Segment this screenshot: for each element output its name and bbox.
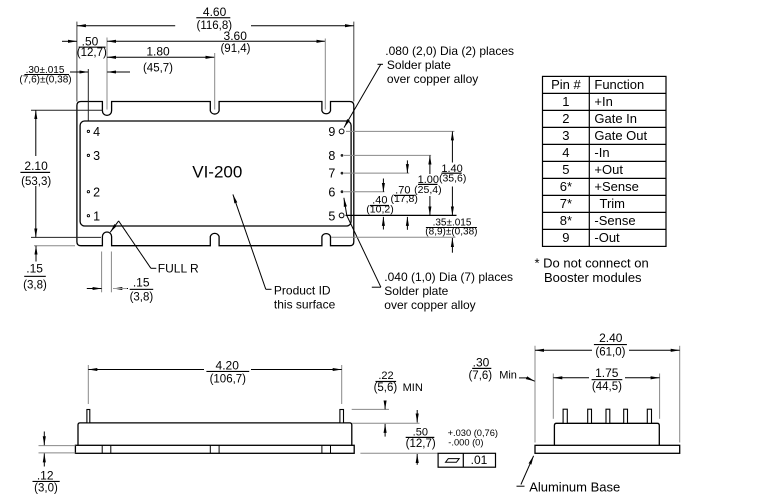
svg-text:1: 1 <box>93 209 100 223</box>
svg-text:+In: +In <box>594 94 612 109</box>
dimension .50 (12,7) +.030/-.000 <box>360 452 438 454</box>
end view pins <box>563 409 651 423</box>
module flange outline with mounting slots <box>77 102 354 246</box>
.040 dia note + leader <box>372 286 381 288</box>
svg-text:(25,4): (25,4) <box>414 184 441 196</box>
svg-text:(44,5): (44,5) <box>592 381 622 393</box>
svg-text:4.20: 4.20 <box>216 358 240 372</box>
svg-text:7: 7 <box>328 167 335 181</box>
svg-text:+.030 (0,76): +.030 (0,76) <box>448 428 498 438</box>
svg-text:* Do not connect on: * Do not connect on <box>535 256 649 271</box>
extension line module left edge up <box>76 22 78 102</box>
aluminum baseplate <box>535 445 680 453</box>
dimension 1.40 (35,6) <box>451 131 453 215</box>
pin 9 row extension line <box>346 130 454 132</box>
svg-text:this surface: this surface <box>274 298 336 312</box>
svg-text:.15: .15 <box>26 262 43 276</box>
dimension .15 (3,8) left <box>34 245 75 247</box>
dimension .70 (17,8) <box>406 160 408 229</box>
pin 6 row extension line <box>344 191 385 193</box>
svg-text:6: 6 <box>328 185 335 199</box>
svg-text:(45,7): (45,7) <box>143 62 173 74</box>
dimension .22 (5,6) MIN <box>352 408 389 410</box>
pin 7 <box>341 172 344 175</box>
svg-text:3: 3 <box>562 128 569 143</box>
svg-text:Gate Out: Gate Out <box>594 128 647 143</box>
svg-text:.15: .15 <box>133 276 150 290</box>
svg-text:(10,2): (10,2) <box>366 203 393 215</box>
svg-text:Product ID: Product ID <box>274 284 331 298</box>
svg-text:Solder plate: Solder plate <box>384 284 448 298</box>
dimension 1.00 (25,4) <box>429 156 431 216</box>
svg-text:5: 5 <box>562 162 569 177</box>
svg-text:4: 4 <box>562 145 569 160</box>
pin 8 row extension line <box>344 154 431 156</box>
svg-text:.30: .30 <box>473 355 490 369</box>
svg-text:(35,6): (35,6) <box>439 172 466 184</box>
svg-text:(3,0): (3,0) <box>34 482 58 494</box>
svg-text:Aluminum Base: Aluminum Base <box>529 480 620 495</box>
svg-text:(106,7): (106,7) <box>210 374 247 386</box>
dimension 1.80 (45,7) <box>107 56 215 58</box>
svg-text:3.60: 3.60 <box>224 29 248 43</box>
svg-text:1: 1 <box>562 94 569 109</box>
svg-text:8: 8 <box>328 149 335 163</box>
pin 3 <box>87 154 89 156</box>
svg-text:Gate In: Gate In <box>594 111 637 126</box>
extension line slot 1 centerline <box>106 38 108 110</box>
dimension .40 (10,2) <box>382 179 384 230</box>
dimension 2.10 (53,3) overall height <box>31 109 103 111</box>
svg-text:6*: 6* <box>560 179 572 194</box>
svg-text:Pin #: Pin # <box>551 77 581 92</box>
svg-text:Trim: Trim <box>600 196 626 211</box>
svg-text:+Out: +Out <box>594 162 623 177</box>
svg-text:VI-200: VI-200 <box>192 163 242 182</box>
pin 4 <box>87 130 89 132</box>
svg-text:9: 9 <box>562 230 569 245</box>
svg-text:9: 9 <box>328 125 335 139</box>
svg-text:8*: 8* <box>560 213 572 228</box>
dimension 3.60 (91,4) <box>107 40 325 42</box>
.080 dia note + leader <box>378 63 384 65</box>
svg-text:-.000 (0): -.000 (0) <box>448 438 483 448</box>
Aluminum Base label + leader <box>517 456 534 486</box>
svg-text:-In: -In <box>594 145 609 160</box>
svg-text:(61,0): (61,0) <box>595 347 625 359</box>
extension line slot 2 centerline <box>214 53 216 110</box>
dimension .50 (12,7) <box>62 40 77 42</box>
pin 5 row line <box>346 214 457 216</box>
flatness feature control frame <box>438 453 495 467</box>
baseplate <box>75 445 354 453</box>
svg-text:.080 (2,0) Dia (2) places: .080 (2,0) Dia (2) places <box>385 44 514 58</box>
svg-text:(8,9)±(0,38): (8,9)±(0,38) <box>425 227 477 238</box>
svg-text:+Sense: +Sense <box>594 179 638 194</box>
svg-text:(3,8): (3,8) <box>130 292 154 304</box>
dimension .15 (3,8) slot width (bottom) <box>101 252 103 293</box>
svg-text:(12,7): (12,7) <box>406 438 436 450</box>
body <box>78 423 352 445</box>
svg-text:2.10: 2.10 <box>24 159 48 173</box>
svg-text:Booster modules: Booster modules <box>544 270 642 285</box>
svg-text:.12: .12 <box>37 469 54 483</box>
svg-text:7*: 7* <box>560 196 572 211</box>
body <box>554 423 659 445</box>
svg-text:.50: .50 <box>413 426 428 438</box>
dimension 2.40 (61,0) <box>534 346 536 443</box>
pin 1 <box>87 215 89 217</box>
svg-text:4.60: 4.60 <box>203 5 227 19</box>
svg-text:2: 2 <box>562 111 569 126</box>
slot marks on baseplate <box>102 445 330 453</box>
svg-text:1.80: 1.80 <box>146 44 170 58</box>
pin 5 <box>339 213 344 218</box>
svg-text:over copper alloy: over copper alloy <box>384 298 475 312</box>
slot center reference line <box>331 236 455 238</box>
svg-text:-Sense: -Sense <box>594 213 635 228</box>
svg-text:(12,7): (12,7) <box>77 47 107 59</box>
svg-text:over copper alloy: over copper alloy <box>387 72 478 86</box>
svg-text:4: 4 <box>93 125 100 139</box>
svg-text:(7,6)±(0,38): (7,6)±(0,38) <box>19 74 71 85</box>
svg-text:FULL R: FULL R <box>158 261 199 275</box>
svg-text:(91,4): (91,4) <box>220 43 250 55</box>
svg-text:(3,8): (3,8) <box>23 280 47 292</box>
svg-text:.01: .01 <box>471 453 488 467</box>
pin 7 row extension line <box>344 172 409 174</box>
extension line slot 3 centerline <box>324 39 326 110</box>
svg-text:Solder plate: Solder plate <box>387 58 451 72</box>
pin 6 <box>341 190 344 193</box>
dimension 4.20 (106,7) <box>87 365 89 404</box>
module cover (inner rounded rect) <box>80 121 351 226</box>
extension line pin-4 column <box>87 69 89 121</box>
svg-text:MIN: MIN <box>403 382 423 394</box>
svg-text:.040 (1,0) Dia (7) places: .040 (1,0) Dia (7) places <box>384 270 513 284</box>
svg-text:1.75: 1.75 <box>595 366 619 380</box>
svg-text:(5,6): (5,6) <box>374 382 398 394</box>
extension line module right edge up <box>353 22 355 102</box>
svg-text:2: 2 <box>93 185 100 199</box>
pin 9 <box>339 129 344 134</box>
FULL R leader <box>110 221 156 268</box>
svg-text:Min: Min <box>499 370 517 382</box>
svg-text:5: 5 <box>328 209 335 223</box>
side pins <box>87 410 90 423</box>
dimension 1.75 (44,5) <box>552 374 554 419</box>
pin 8 <box>341 154 344 157</box>
svg-text:(7,6): (7,6) <box>468 370 492 382</box>
svg-text:(53,3): (53,3) <box>21 176 51 188</box>
dimension 4.60 (116,8) overall width <box>77 25 354 27</box>
dimension .12 (3,0) <box>39 445 76 447</box>
svg-text:.22: .22 <box>378 370 393 382</box>
svg-text:-Out: -Out <box>594 230 620 245</box>
svg-text:3: 3 <box>93 149 100 163</box>
svg-text:2.40: 2.40 <box>599 331 623 345</box>
Product ID leader <box>233 194 266 289</box>
dimension .35±.015 <box>451 238 453 253</box>
pin 2 <box>87 191 89 193</box>
svg-text:Function: Function <box>594 77 644 92</box>
